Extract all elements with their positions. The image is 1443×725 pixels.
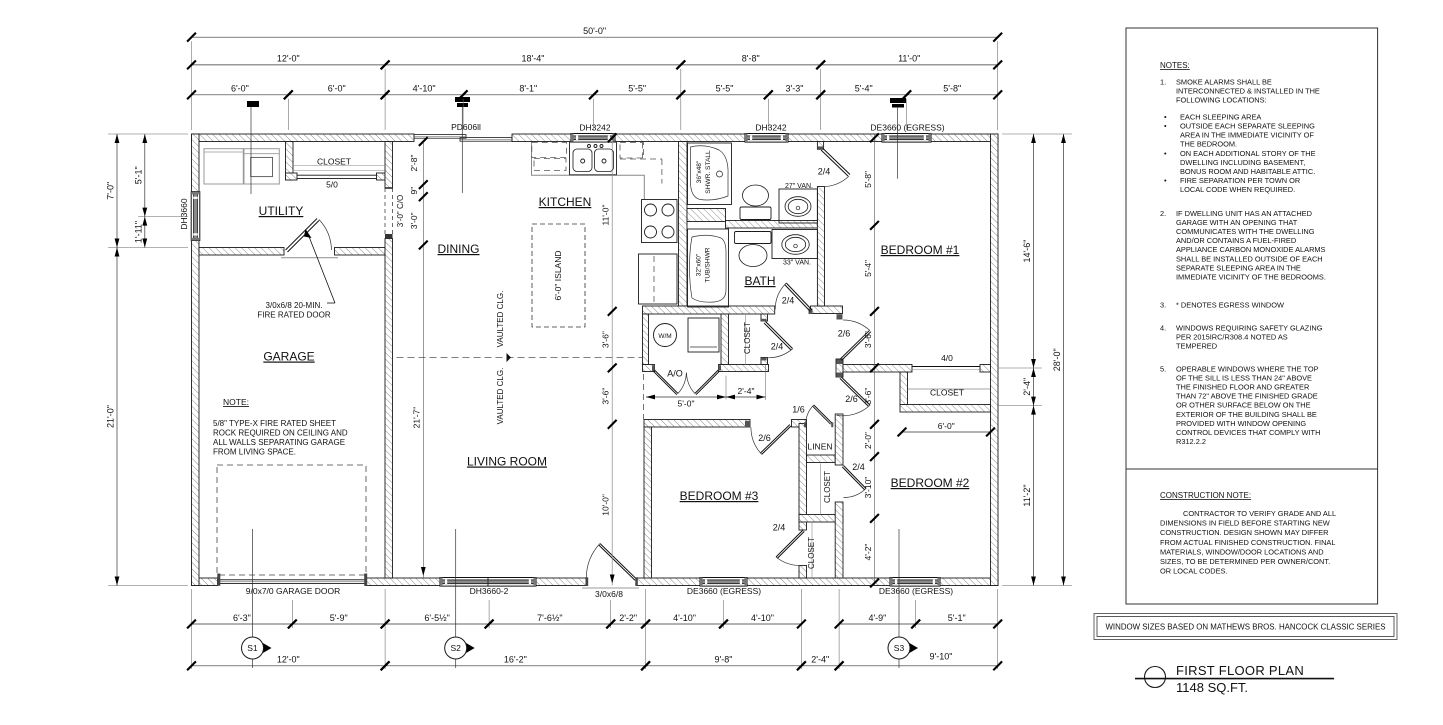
wall: hall closet east jamb top — [761, 314, 768, 321]
wall: utility closet jamb right — [377, 173, 386, 180]
wall: linen south — [807, 455, 836, 463]
wall: bedroom2 west upper — [835, 414, 843, 465]
svg-text:2'-4": 2'-4" — [738, 386, 755, 396]
svg-text:27" VAN.: 27" VAN. — [785, 183, 813, 190]
window DH3242 kitchen — [571, 134, 615, 143]
door 2/4 hall closet — [766, 322, 793, 349]
cased opening 3'-0" C/O dashed — [384, 188, 386, 234]
wall: utility closet stub — [286, 142, 294, 181]
svg-text:WINDOWS REQUIRING SAFETY GLAZI: WINDOWS REQUIRING SAFETY GLAZING — [1176, 324, 1323, 333]
dim extension lines top — [191, 41, 193, 130]
svg-text:VAULTED CLG.: VAULTED CLG. — [496, 291, 505, 348]
dim wm closet 5-0 and hall closet 2-4 — [725, 376, 727, 400]
title: first floor plan — [1145, 667, 1166, 688]
svg-text:THAN 72" ABOVE THE FINISHED GR: THAN 72" ABOVE THE FINISHED GRADE — [1176, 392, 1318, 401]
dim left 5-1/1-11 — [144, 134, 146, 248]
svg-text:BEDROOM #1: BEDROOM #1 — [881, 243, 960, 257]
svg-text:3'-3": 3'-3" — [786, 84, 804, 94]
svg-text:3'-6": 3'-6" — [863, 388, 873, 405]
ridge dashed line living-dining — [397, 357, 643, 359]
wall: exterior top, patio-to-window — [512, 134, 571, 142]
svg-text:INTERCONNECTED & INSTALLED IN: INTERCONNECTED & INSTALLED IN THE — [1176, 87, 1320, 96]
dim extension lines right — [1002, 133, 1072, 135]
svg-text:2/4: 2/4 — [782, 296, 795, 306]
section marker S2 — [455, 529, 457, 668]
svg-text:CLOSET: CLOSET — [317, 157, 351, 167]
svg-text:S3: S3 — [894, 643, 905, 653]
svg-text:CLOSET: CLOSET — [823, 471, 832, 503]
svg-text:21'-0": 21'-0" — [106, 405, 116, 428]
svg-text:21'-7": 21'-7" — [412, 407, 422, 429]
svg-text:CONTROL DEVICES THAT COMPLY WI: CONTROL DEVICES THAT COMPLY WITH — [1176, 428, 1320, 437]
svg-text:FIRE RATED DOOR: FIRE RATED DOOR — [257, 311, 330, 320]
wall: utility-dining partition — [385, 142, 393, 189]
door 2/6 bedroom2 — [841, 377, 870, 405]
svg-text:2/4: 2/4 — [852, 462, 865, 472]
svg-text:PD606ll: PD606ll — [451, 122, 481, 132]
svg-text:3'-6": 3'-6" — [601, 331, 611, 348]
fixture: vanity 33in — [772, 230, 817, 259]
dim bottom rowB — [192, 665, 386, 667]
wall: bath east — [817, 187, 824, 307]
door 2/4 bath north (to hall) — [821, 150, 848, 176]
svg-text:•: • — [1164, 113, 1167, 122]
svg-text:5'-8": 5'-8" — [943, 84, 961, 94]
wall: exterior bottom, garage-to-window — [366, 578, 441, 586]
svg-text:DH3660: DH3660 — [179, 198, 189, 229]
wall: garage east (fire wall) — [385, 239, 393, 579]
wall: exterior left, above window — [192, 134, 200, 192]
svg-text:BATH: BATH — [744, 274, 775, 288]
svg-text:OR LOCAL CODES.: OR LOCAL CODES. — [1160, 567, 1228, 576]
wall: bedroom1 closet west — [900, 372, 908, 405]
fixture: refrigerator — [639, 254, 678, 304]
svg-text:3'-0" C/O: 3'-0" C/O — [396, 195, 405, 227]
garage door dashed panel — [217, 465, 366, 575]
svg-text:8'-8": 8'-8" — [742, 54, 760, 64]
svg-text:1148 SQ.FT.: 1148 SQ.FT. — [1176, 680, 1248, 695]
svg-text:SHWR. STALL: SHWR. STALL — [705, 150, 712, 194]
fixture: kitchen counter edge — [532, 142, 645, 200]
wall: utility south, east segment — [335, 248, 386, 256]
svg-text:BEDROOM #3: BEDROOM #3 — [680, 489, 759, 503]
svg-text:5'-8": 5'-8" — [863, 171, 873, 188]
svg-text:5'-5": 5'-5" — [716, 84, 734, 94]
wall: exterior bottom, living-bedroom3 — [637, 578, 700, 586]
svg-text:2/4: 2/4 — [818, 167, 831, 177]
svg-text:VAULTED CLG.: VAULTED CLG. — [496, 368, 505, 425]
wall: bedroom3 north jamb — [792, 420, 807, 428]
svg-text:5'-0": 5'-0" — [678, 399, 695, 409]
dim row 50ft — [192, 36, 998, 38]
svg-text:14'-6": 14'-6" — [1022, 240, 1032, 263]
fixture: vanity 27in — [779, 189, 817, 223]
wall: exterior bottom, bedroom3-bedroom2 — [747, 578, 890, 586]
svg-text:DH3242: DH3242 — [579, 123, 610, 133]
garage door 9/0x7/0 slab — [219, 580, 366, 584]
svg-text:OF THE SILL IS LESS THAN 24" A: OF THE SILL IS LESS THAN 24" ABOVE — [1176, 374, 1312, 383]
svg-text:3/0x6/8 20-MIN.: 3/0x6/8 20-MIN. — [266, 301, 323, 310]
svg-text:MATERIALS, WINDOW/DOOR LOCATIO: MATERIALS, WINDOW/DOOR LOCATIONS AND — [1160, 547, 1324, 556]
svg-text:DE3660 (EGRESS): DE3660 (EGRESS) — [687, 586, 761, 596]
svg-text:CONSTRUCTION NOTE:: CONSTRUCTION NOTE: — [1160, 491, 1251, 500]
wall: exterior top, bath-bedroom1 — [788, 134, 882, 142]
window DE3660 bedroom3 egress — [700, 578, 747, 587]
svg-text:10'-0": 10'-0" — [601, 494, 611, 516]
wall: bath shower-tub divider left — [687, 209, 726, 222]
svg-text:SEPARATE SLEEPING AREA IN THE: SEPARATE SLEEPING AREA IN THE — [1176, 263, 1301, 272]
svg-text:SHALL BE INSTALLED OUTSIDE OF: SHALL BE INSTALLED OUTSIDE OF EACH — [1176, 254, 1323, 263]
svg-text:32"x60": 32"x60" — [696, 253, 703, 276]
svg-text:9'-10": 9'-10" — [930, 652, 953, 662]
svg-text:2/4: 2/4 — [771, 342, 784, 352]
window DH3660 utility left wall — [191, 192, 200, 241]
svg-text:WINDOW SIZES BASED ON MATHEWS: WINDOW SIZES BASED ON MATHEWS BROS. HANC… — [1105, 623, 1385, 632]
svg-text:AND/OR CONTAINS A FUEL-FIRED: AND/OR CONTAINS A FUEL-FIRED — [1176, 236, 1296, 245]
window DE3660 bedroom2 egress — [890, 578, 940, 587]
svg-text:FROM ACTUAL FINISHED CONSTRUCT: FROM ACTUAL FINISHED CONSTRUCTION. FINAL — [1160, 538, 1335, 547]
svg-text:6'-5½": 6'-5½" — [424, 613, 449, 623]
svg-text:9'-8": 9'-8" — [715, 655, 733, 665]
svg-text:DWELLING INCLUDING BASEMENT,: DWELLING INCLUDING BASEMENT, — [1180, 158, 1305, 167]
svg-text:6'-0": 6'-0" — [231, 84, 249, 94]
dim bottom rowA — [192, 623, 293, 625]
wall: bedroom1 closet south — [900, 405, 991, 413]
wall: bedroom3 north — [644, 420, 750, 428]
svg-text:9/0x7/0 GARAGE DOOR: 9/0x7/0 GARAGE DOOR — [246, 586, 340, 596]
wall: utility south, west segment — [199, 248, 284, 256]
svg-text:OR OTHER SURFACE BELOW ON THE: OR OTHER SURFACE BELOW ON THE — [1176, 401, 1311, 410]
svg-text:FIRE SEPARATION PER TOWN OR: FIRE SEPARATION PER TOWN OR — [1180, 176, 1300, 185]
svg-text:W/M: W/M — [658, 333, 671, 340]
door jamb caps — [817, 146, 823, 149]
svg-text:2'-2": 2'-2" — [619, 613, 637, 623]
patio door PD6061 — [414, 135, 466, 139]
door 2/4 bath south (into bath) — [786, 283, 812, 310]
svg-text:28'-0": 28'-0" — [1052, 348, 1062, 371]
door 2/4 bedroom2 closet — [844, 466, 867, 489]
svg-text:18'-4": 18'-4" — [521, 54, 544, 64]
door 2/4 bedroom3 closet — [776, 530, 803, 557]
svg-text:S1: S1 — [247, 643, 258, 653]
svg-text:ALL WALLS SEPARATING GARAGE: ALL WALLS SEPARATING GARAGE — [213, 438, 345, 447]
svg-text:EXTERIOR OF THE BUILDING SHALL: EXTERIOR OF THE BUILDING SHALL BE — [1176, 410, 1317, 419]
wall: hall closet east jamb bottom — [761, 358, 768, 365]
svg-text:FROM LIVING SPACE.: FROM LIVING SPACE. — [213, 448, 296, 457]
svg-text:CONTRACTOR TO VERIFY GRADE AND: CONTRACTOR TO VERIFY GRADE AND ALL — [1183, 509, 1336, 518]
svg-text:3'-6": 3'-6" — [601, 388, 611, 405]
fixture: toilet 2 — [735, 232, 772, 244]
svg-text:3.: 3. — [1160, 301, 1166, 310]
svg-text:4/0: 4/0 — [941, 353, 953, 363]
svg-text:7'-6½": 7'-6½" — [537, 613, 562, 623]
bedroom1 closet shelf 4/0 opening — [912, 366, 980, 368]
svg-text:LIVING ROOM: LIVING ROOM — [467, 455, 547, 469]
hall closet shelf — [744, 314, 746, 365]
svg-text:4'-10": 4'-10" — [751, 613, 774, 623]
svg-text:5'-4": 5'-4" — [863, 260, 873, 277]
section marker S1 — [252, 529, 254, 668]
svg-text:OUTSIDE EACH SEPARATE SLEEPING: OUTSIDE EACH SEPARATE SLEEPING — [1180, 122, 1315, 131]
wall: bath divider right — [726, 221, 818, 229]
closet column shelves — [820, 464, 822, 515]
utility closet shelf — [293, 165, 385, 167]
svg-text:8'-1": 8'-1" — [519, 84, 537, 94]
fixture: dryer box wm closet — [688, 318, 719, 352]
svg-text:NOTES:: NOTES: — [1160, 61, 1190, 70]
svg-text:3'-6": 3'-6" — [863, 331, 873, 348]
wall: bath south, west segment — [643, 306, 775, 314]
svg-text:AREA IN THE IMMEDIATE VICINITY: AREA IN THE IMMEDIATE VICINITY OF — [1180, 131, 1314, 140]
svg-text:5'-1": 5'-1" — [948, 613, 966, 623]
svg-text:1.: 1. — [1160, 78, 1166, 87]
fixture: washer utility — [204, 149, 243, 184]
svg-text:2'-8": 2'-8" — [409, 155, 419, 172]
svg-text:2'-4": 2'-4" — [811, 655, 829, 665]
wall: wm closet west — [643, 314, 649, 365]
svg-text:R312.2.2: R312.2.2 — [1176, 437, 1206, 446]
wall: wm-closet divider — [721, 314, 729, 365]
wall: exterior right — [991, 134, 999, 586]
svg-text:GARAGE WITH AN OPENING THAT: GARAGE WITH AN OPENING THAT — [1176, 218, 1298, 227]
svg-text:16'-2": 16'-2" — [504, 655, 527, 665]
dashed wall line at wm closet — [643, 374, 645, 420]
svg-text:DH3242: DH3242 — [755, 123, 786, 133]
svg-text:DH3660-2: DH3660-2 — [470, 586, 509, 596]
svg-text:36"x48": 36"x48" — [696, 160, 703, 183]
svg-text:2/6: 2/6 — [845, 394, 858, 404]
svg-text:50'-0": 50'-0" — [583, 26, 606, 36]
fixture: kitchen sink double — [570, 142, 617, 175]
wall: exterior top, right of egress window — [931, 134, 998, 142]
svg-text:CLOSET: CLOSET — [807, 537, 816, 569]
svg-text:5'-5": 5'-5" — [628, 84, 646, 94]
svg-text:5/8" TYPE-X FIRE RATED SHEET: 5/8" TYPE-X FIRE RATED SHEET — [213, 419, 336, 428]
fixture: toilet 1 — [740, 207, 771, 220]
svg-text:2/4: 2/4 — [773, 523, 786, 533]
svg-text:IF DWELLING UNIT HAS AN ATTACH: IF DWELLING UNIT HAS AN ATTACHED — [1176, 209, 1312, 218]
door A/O wm closet double — [655, 370, 679, 394]
svg-text:5'-9": 5'-9" — [330, 613, 348, 623]
svg-text:A/O: A/O — [667, 369, 683, 379]
svg-text:NOTE:: NOTE: — [223, 397, 249, 407]
wall: closet1 south — [799, 515, 843, 523]
bedroom1 closet shelf line — [908, 388, 990, 390]
section marker S3 — [898, 529, 900, 668]
svg-text:4'-2": 4'-2" — [863, 544, 873, 561]
svg-text:4'-10": 4'-10" — [673, 613, 696, 623]
dim right inner — [1033, 134, 1035, 586]
svg-text:2'-0": 2'-0" — [863, 432, 873, 449]
window DE3660 bedroom1 egress — [882, 134, 931, 143]
svg-text:2.: 2. — [1160, 209, 1166, 218]
svg-text:FIRST FLOOR PLAN: FIRST FLOOR PLAN — [1176, 663, 1304, 678]
svg-text:APPLIANCE CARBON MONOXIDE ALAR: APPLIANCE CARBON MONOXIDE ALARMS — [1176, 245, 1326, 254]
svg-text:DE3660 (EGRESS): DE3660 (EGRESS) — [879, 586, 953, 596]
kitchen upper cabinets dashed — [532, 143, 567, 158]
svg-text:CLOSET: CLOSET — [743, 322, 752, 354]
svg-text:12'-0": 12'-0" — [277, 54, 300, 64]
dim interior line hall 5-8 etc — [874, 134, 876, 586]
svg-text:OPERABLE WINDOWS WHERE THE TOP: OPERABLE WINDOWS WHERE THE TOP — [1176, 365, 1319, 374]
dim extension lines bottom — [191, 589, 193, 669]
door 3/0 utility-garage with arc — [286, 219, 318, 251]
svg-text:4'-9": 4'-9" — [868, 613, 886, 623]
svg-text:7'-0": 7'-0" — [106, 182, 116, 200]
wall: exterior bottom, right corner — [940, 578, 998, 586]
svg-text:PER 2015IRC/R308.4 NOTED AS: PER 2015IRC/R308.4 NOTED AS — [1176, 333, 1288, 342]
door 1/6 linen bifold — [814, 405, 832, 423]
svg-text:1'-11": 1'-11" — [133, 221, 143, 243]
wall: kitchen-bath west — [679, 142, 688, 307]
svg-text:DE3660 (EGRESS): DE3660 (EGRESS) — [870, 123, 944, 133]
svg-text:LOCAL CODE WHEN REQUIRED.: LOCAL CODE WHEN REQUIRED. — [1180, 185, 1295, 194]
svg-text:CONSTRUCTION. DESIGN SHOWN MAY: CONSTRUCTION. DESIGN SHOWN MAY DIFFER — [1160, 528, 1328, 537]
door 2/6 bedroom3 — [762, 426, 791, 454]
dim left 7ft/21ft — [116, 134, 118, 586]
svg-text:DIMENSIONS IN FIELD BEFORE STA: DIMENSIONS IN FIELD BEFORE STARTING NEW — [1160, 519, 1330, 528]
svg-text:5'-4": 5'-4" — [855, 84, 873, 94]
svg-text:11'-2": 11'-2" — [1022, 484, 1032, 506]
svg-text:TUB/SHWR: TUB/SHWR — [705, 247, 712, 282]
svg-text:TEMPERED: TEMPERED — [1176, 342, 1217, 351]
flag: utility ceiling mark — [247, 101, 259, 107]
wall: bedroom3 west — [644, 427, 652, 578]
door leader arrow 20-min fire door — [327, 302, 335, 304]
svg-text:FOLLOWING LOCATIONS:: FOLLOWING LOCATIONS: — [1176, 96, 1267, 105]
svg-text:6'-0": 6'-0" — [938, 421, 955, 431]
wall: bedroom1 closet north jamb — [980, 365, 991, 373]
svg-text:ON EACH ADDITIONAL STORY OF TH: ON EACH ADDITIONAL STORY OF THE — [1180, 149, 1316, 158]
svg-text:THE FINISHED FLOOR AND GREATER: THE FINISHED FLOOR AND GREATER — [1176, 383, 1309, 392]
svg-text:6'-3": 6'-3" — [233, 613, 251, 623]
svg-text:11'-0": 11'-0" — [898, 54, 920, 64]
fixture: island dashed — [532, 224, 585, 327]
fixture: dryer utility — [244, 149, 279, 184]
fixture: range 4 burners — [642, 200, 678, 243]
svg-text:* DENOTES EGRESS WINDOW: * DENOTES EGRESS WINDOW — [1176, 301, 1284, 310]
svg-text:5.: 5. — [1160, 365, 1166, 374]
dim extension lines left — [108, 133, 188, 135]
wall: exterior bottom, window-to-door — [536, 578, 586, 586]
notes panel border — [1126, 28, 1378, 604]
door 3/0 front entry — [600, 544, 637, 580]
wall: wm closet south band left — [643, 365, 655, 372]
svg-text:12'-0": 12'-0" — [277, 655, 300, 665]
svg-text:2/6: 2/6 — [838, 329, 851, 339]
flag: patio door mark — [455, 97, 470, 102]
dim interior line 21-7 — [422, 142, 424, 579]
svg-text:COMMUNICATES WITH THE DWELLING: COMMUNICATES WITH THE DWELLING — [1176, 227, 1315, 236]
wall: closet column west upper — [799, 424, 807, 531]
svg-text:9": 9" — [409, 187, 419, 195]
svg-text:6'-0": 6'-0" — [328, 84, 346, 94]
wall: bath south, east segment — [811, 306, 843, 314]
wall: hall stub at bedroom1 — [836, 359, 843, 377]
wall: exterior top, kitchen-bath — [615, 134, 745, 142]
wall: closet column west lower — [799, 566, 807, 579]
wall: bedroom2 west lower — [835, 502, 843, 578]
svg-text:SIZES, TO BE DETERMINED PER OW: SIZES, TO BE DETERMINED PER OWNER/CONT. — [1160, 557, 1330, 566]
svg-text:KITCHEN: KITCHEN — [539, 195, 592, 209]
svg-text:4.: 4. — [1160, 324, 1166, 333]
flag: bedroom1 window mark — [890, 98, 906, 103]
wall: wm closet south band right — [719, 365, 769, 372]
svg-text:ROCK REQUIRED ON CEILING AND: ROCK REQUIRED ON CEILING AND — [213, 429, 348, 438]
svg-text:GARAGE: GARAGE — [263, 350, 314, 364]
svg-text:33" VAN.: 33" VAN. — [783, 260, 811, 267]
svg-text:BEDROOM #2: BEDROOM #2 — [891, 476, 970, 490]
fixture: washing machine circle W/M — [654, 324, 677, 347]
svg-text:•: • — [1164, 176, 1167, 185]
fixture: shower stall 36x48 — [688, 143, 732, 205]
dim right outer 28ft — [1063, 134, 1065, 586]
svg-text:PROVIDED WITH WINDOW OPENING: PROVIDED WITH WINDOW OPENING — [1176, 419, 1306, 428]
svg-text:SMOKE ALARMS SHALL BE: SMOKE ALARMS SHALL BE — [1176, 78, 1272, 87]
wall: bedroom1 closet north — [843, 365, 912, 373]
window DH3242 bath — [745, 134, 788, 143]
svg-text:5'-1": 5'-1" — [133, 166, 143, 184]
window sizes box — [1094, 614, 1397, 640]
fixture: tub 32x60 — [688, 229, 729, 307]
svg-text:2'-4": 2'-4" — [1022, 378, 1032, 396]
wall: bath north door stub — [817, 142, 823, 150]
svg-text:IMMEDIATE VICINITY OF THE BEDR: IMMEDIATE VICINITY OF THE BEDROOMS. — [1176, 272, 1326, 281]
svg-text:6'-0" ISLAND: 6'-0" ISLAND — [553, 251, 563, 301]
svg-text:BONUS ROOM AND HABITABLE ATTIC: BONUS ROOM AND HABITABLE ATTIC. — [1180, 167, 1315, 176]
svg-text:THE BEDROOM.: THE BEDROOM. — [1180, 140, 1237, 149]
svg-text:UTILITY: UTILITY — [259, 204, 304, 218]
wall: exterior left, below window — [192, 241, 200, 586]
window DH3660-2 living room — [440, 578, 536, 587]
svg-text:4'-10": 4'-10" — [413, 84, 436, 94]
svg-text:CLOSET: CLOSET — [930, 388, 964, 398]
svg-text:5/0: 5/0 — [326, 180, 338, 190]
svg-text:3'-10": 3'-10" — [863, 477, 873, 499]
dim row3 — [192, 94, 289, 96]
wall: utility closet jamb left — [286, 173, 298, 180]
svg-text:•: • — [1164, 122, 1167, 131]
bifold 5/0 utility closet — [297, 174, 377, 176]
svg-text:2/6: 2/6 — [758, 433, 771, 443]
door 2/6 bedroom1 — [840, 330, 869, 359]
dim interior line kitchen 11-0 — [611, 142, 613, 586]
svg-text:EACH SLEEPING AREA: EACH SLEEPING AREA — [1180, 113, 1261, 122]
wall: exterior bottom, left corner — [192, 578, 218, 586]
svg-text:S2: S2 — [450, 643, 461, 653]
dim bedroom2 closet 6-0 — [902, 431, 991, 433]
svg-text:1/6: 1/6 — [792, 405, 805, 415]
svg-text:LINEN: LINEN — [807, 442, 832, 452]
svg-text:11'-0": 11'-0" — [601, 204, 611, 225]
dim row2 — [192, 64, 386, 66]
wall: exterior top, left of patio door — [192, 134, 415, 142]
svg-text:DINING: DINING — [438, 242, 480, 256]
svg-text:3/0x6/8: 3/0x6/8 — [595, 589, 623, 599]
svg-text:•: • — [1164, 149, 1167, 158]
svg-text:3'-0": 3'-0" — [409, 212, 419, 229]
